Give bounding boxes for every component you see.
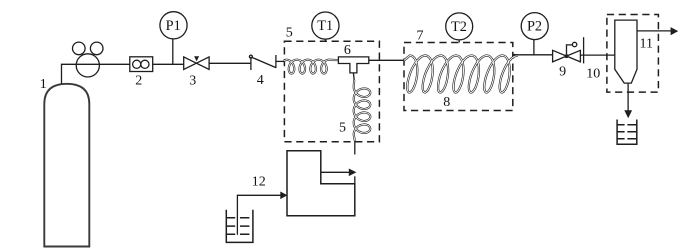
- separator 11: [615, 20, 637, 83]
- regulator gauge right: [90, 42, 103, 55]
- svg-text:1: 1: [40, 77, 47, 92]
- svg-text:7: 7: [417, 29, 424, 44]
- check valve 4: [249, 55, 276, 70]
- wire cylinder to regulator: [62, 64, 130, 84]
- wire P2 stub: [533, 40, 535, 55]
- regulator gauge left: [73, 42, 86, 55]
- regulator body: [76, 54, 99, 77]
- bottom outlet arrow: [624, 110, 632, 118]
- wire T1 stub: [324, 39, 326, 41]
- collection beaker right: [617, 120, 637, 145]
- pipe coil down to bath: [354, 141, 356, 155]
- separator bottom outlet wire: [627, 83, 629, 111]
- coil 8: [404, 55, 518, 93]
- arrow into pipe: [349, 169, 357, 177]
- wire box7 to valve 9: [513, 54, 553, 56]
- dashed enclosure 7 (heating box 2): [404, 43, 513, 111]
- dashed enclosure 5 (heating box 1): [284, 41, 379, 141]
- svg-text:5: 5: [286, 25, 293, 40]
- svg-text:11: 11: [640, 37, 653, 52]
- svg-text:5: 5: [339, 121, 346, 136]
- flow meter 2: [130, 57, 153, 72]
- feed beaker 12: [226, 210, 253, 243]
- pipe stub into block: [354, 176, 356, 184]
- svg-text:T1: T1: [317, 18, 333, 34]
- gas cylinder 1: [44, 84, 89, 247]
- wire P1 stub: [172, 39, 174, 64]
- valve 3: [184, 56, 209, 69]
- svg-text:3: 3: [189, 74, 196, 89]
- wire T2 stub: [458, 40, 460, 43]
- wire valve3 to check valve 4: [209, 62, 251, 64]
- svg-text:9: 9: [559, 65, 566, 80]
- coil 5b vertical: [354, 80, 371, 141]
- svg-text:4: 4: [257, 73, 264, 88]
- bath block (pump/ultrasonic unit): [287, 151, 355, 216]
- gauge P2: [521, 13, 548, 40]
- svg-text:T2: T2: [451, 19, 467, 35]
- gauge T1: [312, 12, 339, 39]
- separator gas outlet wire: [637, 30, 671, 32]
- feed tube 12: [237, 195, 280, 234]
- wire 4 to coil 5: [276, 60, 285, 62]
- svg-text:P1: P1: [166, 18, 181, 34]
- feed arrow: [280, 192, 287, 200]
- svg-text:8: 8: [443, 95, 450, 110]
- wire tee to box 7: [369, 59, 404, 61]
- svg-text:6: 6: [344, 43, 351, 58]
- svg-text:P2: P2: [527, 19, 542, 35]
- gauge P1: [160, 12, 187, 39]
- wire block to pipe: [321, 171, 350, 173]
- port 10: [583, 37, 585, 63]
- svg-text:12: 12: [252, 174, 266, 189]
- svg-text:2: 2: [135, 74, 142, 89]
- wire tee stem down: [352, 73, 355, 80]
- wire 2 to valve 3: [153, 63, 184, 65]
- valve 9: [553, 42, 581, 62]
- gas outlet arrow: [671, 27, 679, 35]
- tee fitting 6: [338, 57, 368, 73]
- wire valve9 to separator: [580, 54, 614, 56]
- dashed enclosure separator: [607, 15, 659, 93]
- gauge T2: [446, 13, 473, 40]
- coil 5a horizontal: [284, 60, 338, 74]
- svg-text:10: 10: [586, 67, 600, 82]
